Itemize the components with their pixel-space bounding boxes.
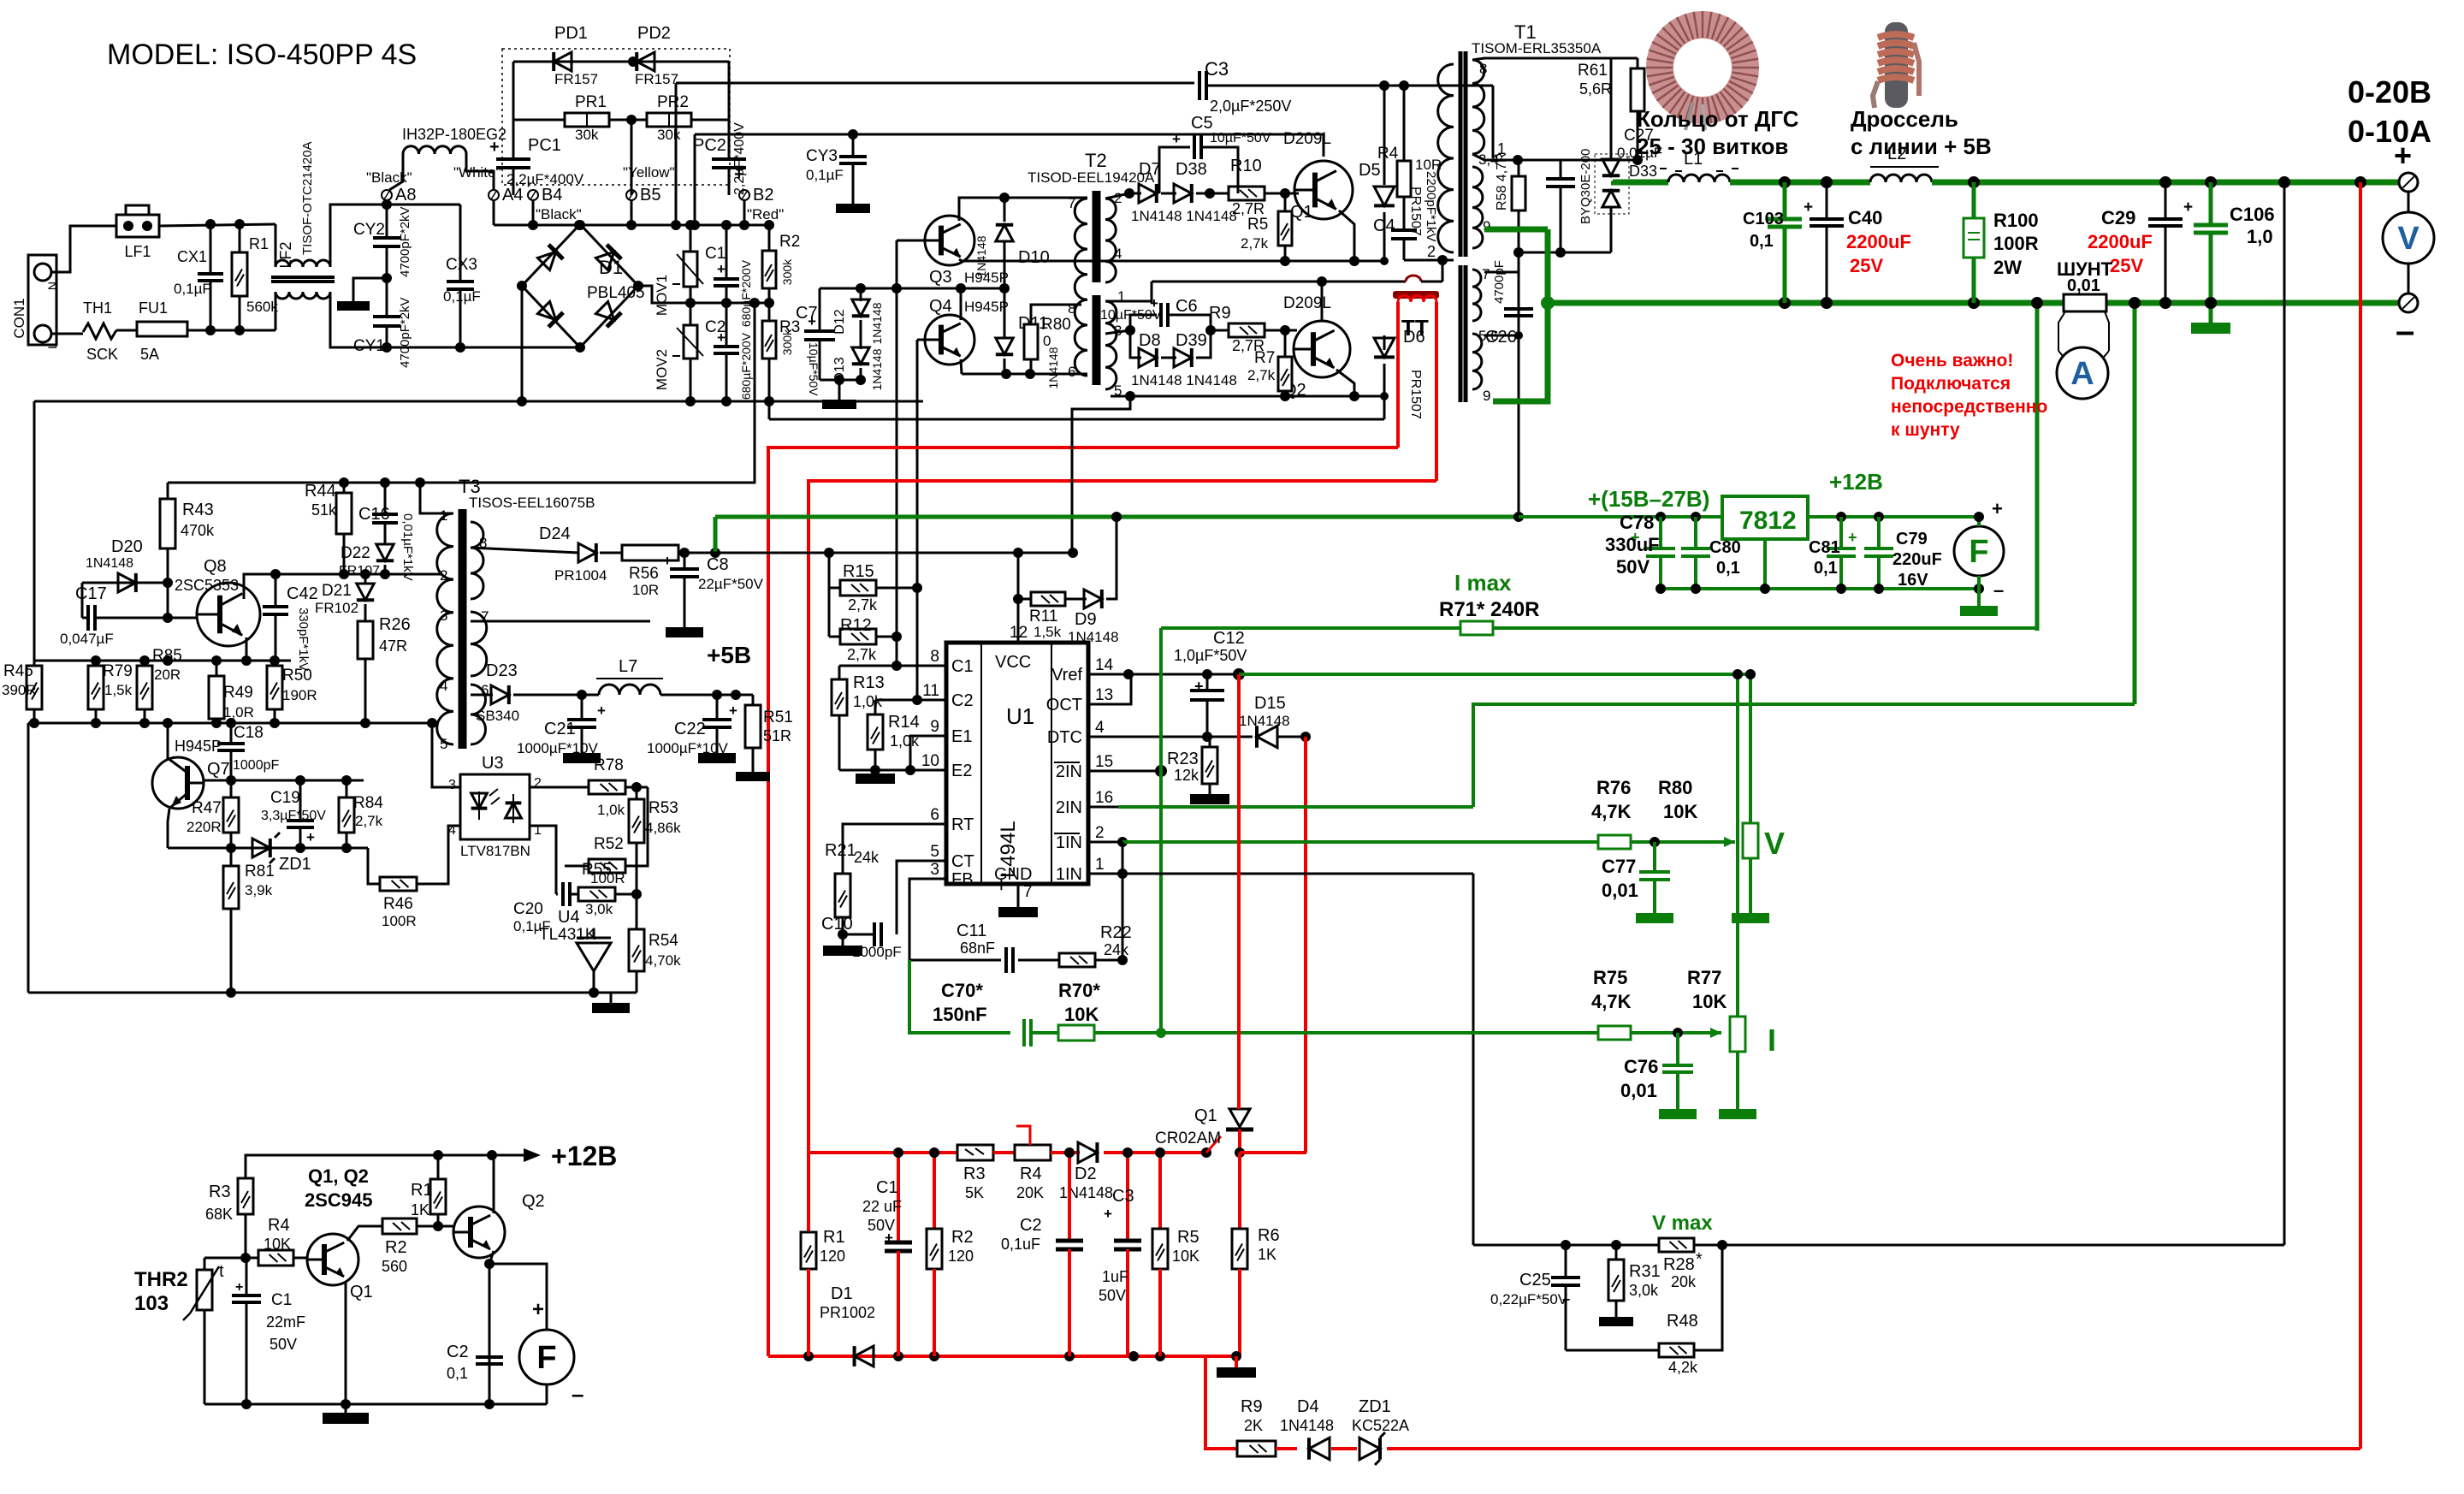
svg-text:1uF: 1uF xyxy=(1102,1268,1128,1285)
svg-text:+5B: +5B xyxy=(707,642,751,668)
svg-text:R4: R4 xyxy=(1020,1165,1042,1183)
svg-text:Очень важно!: Очень важно! xyxy=(1891,351,2013,371)
svg-text:LF2: LF2 xyxy=(277,241,294,268)
svg-text:Кольцо от ДГС: Кольцо от ДГС xyxy=(1637,106,1799,132)
svg-text:25 - 30 витков: 25 - 30 витков xyxy=(1637,133,1788,159)
svg-text:4700pF: 4700pF xyxy=(1492,260,1507,304)
svg-text:+: + xyxy=(1848,529,1857,546)
svg-text:D209L: D209L xyxy=(1283,130,1331,148)
svg-text:300k: 300k xyxy=(780,329,794,355)
svg-text:C5: C5 xyxy=(1191,114,1213,133)
svg-text:R9: R9 xyxy=(1241,1397,1263,1416)
svg-text:4700pF*2kV: 4700pF*2kV xyxy=(398,297,412,368)
svg-text:D209L: D209L xyxy=(1283,294,1331,312)
svg-text:3,9k: 3,9k xyxy=(245,882,273,898)
svg-text:KC522A: KC522A xyxy=(1352,1417,1409,1434)
svg-text:D4: D4 xyxy=(1297,1397,1319,1416)
svg-text:R31: R31 xyxy=(1629,1262,1661,1281)
svg-text:51R: 51R xyxy=(763,727,791,744)
svg-text:TL431K: TL431K xyxy=(539,926,596,944)
svg-text:4,2k: 4,2k xyxy=(1668,1359,1698,1376)
svg-text:TISOF-OTC21420A: TISOF-OTC21420A xyxy=(300,141,315,255)
svg-text:Q7: Q7 xyxy=(207,760,230,779)
svg-text:R14: R14 xyxy=(888,713,920,732)
svg-text:1N4148: 1N4148 xyxy=(1068,629,1119,645)
svg-text:10: 10 xyxy=(921,752,939,770)
svg-text:U3: U3 xyxy=(482,754,504,773)
svg-text:R28: R28 xyxy=(1663,1255,1695,1274)
svg-text:D23: D23 xyxy=(486,661,518,680)
svg-text:D38: D38 xyxy=(1176,160,1207,179)
svg-text:+: + xyxy=(1804,199,1813,216)
svg-text:+: + xyxy=(306,829,315,845)
svg-text:+: + xyxy=(1992,498,2003,519)
svg-text:I max: I max xyxy=(1454,570,1512,596)
svg-text:R56: R56 xyxy=(629,565,659,583)
svg-text:+: + xyxy=(597,703,606,719)
svg-text:FB: FB xyxy=(951,870,974,889)
svg-text:+: + xyxy=(489,138,500,157)
svg-text:PC2: PC2 xyxy=(693,136,726,155)
svg-text:D39: D39 xyxy=(1176,331,1207,350)
svg-text:25V: 25V xyxy=(1850,255,1883,276)
svg-text:330pF*1kV: 330pF*1kV xyxy=(296,608,311,671)
svg-text:R78: R78 xyxy=(594,756,624,774)
svg-text:5K: 5K xyxy=(965,1184,984,1201)
svg-text:4: 4 xyxy=(1114,246,1122,262)
svg-text:C11: C11 xyxy=(957,922,986,940)
svg-text:PD1: PD1 xyxy=(554,24,588,43)
svg-text:R26: R26 xyxy=(379,615,411,634)
svg-text:TISOM-ERL35350A: TISOM-ERL35350A xyxy=(1472,40,1602,56)
svg-text:LF1: LF1 xyxy=(124,243,151,260)
svg-text:1N4148: 1N4148 xyxy=(1280,1417,1334,1434)
svg-text:470k: 470k xyxy=(181,522,215,539)
svg-text:H945P: H945P xyxy=(175,738,222,755)
svg-text:8: 8 xyxy=(1479,61,1487,77)
svg-text:C12: C12 xyxy=(1213,629,1245,648)
svg-text:PR1004: PR1004 xyxy=(554,567,607,584)
svg-text:14: 14 xyxy=(1095,656,1114,674)
svg-text:+12B: +12B xyxy=(1829,469,1883,495)
svg-text:R2: R2 xyxy=(385,1238,407,1257)
svg-text:390R: 390R xyxy=(2,682,37,698)
svg-text:C4: C4 xyxy=(1373,216,1395,235)
svg-text:0,01: 0,01 xyxy=(2067,276,2100,295)
svg-text:C20: C20 xyxy=(513,900,543,918)
svg-text:10K: 10K xyxy=(264,1236,291,1253)
svg-text:3,0k: 3,0k xyxy=(1629,1282,1659,1299)
svg-text:4: 4 xyxy=(1095,719,1105,737)
svg-text:+: + xyxy=(1172,131,1181,147)
svg-text:R3: R3 xyxy=(209,1183,231,1201)
svg-text:+: + xyxy=(885,1230,893,1246)
svg-text:2200uF: 2200uF xyxy=(2088,231,2153,252)
svg-text:+12B: +12B xyxy=(551,1141,617,1171)
svg-text:5: 5 xyxy=(930,843,939,861)
svg-text:8: 8 xyxy=(930,648,939,666)
svg-text:C1: C1 xyxy=(951,657,974,676)
svg-text:A8: A8 xyxy=(395,186,416,205)
svg-text:–: – xyxy=(2396,312,2414,350)
svg-text:R45: R45 xyxy=(3,662,33,680)
svg-text:16: 16 xyxy=(1095,789,1113,807)
svg-text:120: 120 xyxy=(948,1248,974,1265)
svg-text:C2: C2 xyxy=(705,318,726,336)
svg-text:C25: C25 xyxy=(1519,1271,1551,1289)
svg-text:C2: C2 xyxy=(447,1343,469,1361)
svg-text:7: 7 xyxy=(1023,883,1033,901)
svg-text:PR1: PR1 xyxy=(575,93,607,111)
svg-text:68K: 68K xyxy=(205,1206,233,1223)
svg-text:2: 2 xyxy=(1095,824,1105,842)
svg-text:2,7k: 2,7k xyxy=(1241,235,1269,252)
svg-text:2: 2 xyxy=(1114,190,1122,206)
svg-text:D1: D1 xyxy=(599,257,623,278)
svg-text:C8: C8 xyxy=(707,555,729,574)
svg-text:0,1µF: 0,1µF xyxy=(443,288,481,305)
svg-text:22 uF: 22 uF xyxy=(862,1198,902,1215)
svg-text:10K: 10K xyxy=(1692,991,1727,1012)
svg-text:Q3: Q3 xyxy=(929,268,952,287)
svg-text:100R: 100R xyxy=(1993,233,2039,254)
svg-text:U1: U1 xyxy=(1006,703,1034,729)
svg-text:13: 13 xyxy=(1095,686,1113,704)
svg-text:FU1: FU1 xyxy=(139,299,168,317)
svg-text:D7: D7 xyxy=(1139,160,1161,179)
svg-text:FR157: FR157 xyxy=(554,71,598,87)
svg-text:R46: R46 xyxy=(383,895,413,913)
svg-text:C1: C1 xyxy=(876,1178,898,1197)
svg-text:50V: 50V xyxy=(1616,556,1650,578)
svg-text:+(15B–27B): +(15B–27B) xyxy=(1588,486,1709,512)
svg-text:C19: C19 xyxy=(270,789,300,807)
svg-text:–: – xyxy=(1993,579,2004,601)
svg-text:103: 103 xyxy=(134,1292,169,1315)
svg-text:C26: C26 xyxy=(1485,328,1517,347)
svg-text:30k: 30k xyxy=(575,127,599,143)
svg-text:1,0R: 1,0R xyxy=(223,704,254,720)
svg-text:0: 0 xyxy=(1043,333,1051,349)
svg-text:10R: 10R xyxy=(632,582,659,598)
svg-text:R44: R44 xyxy=(305,482,336,501)
svg-text:330uF: 330uF xyxy=(1605,534,1660,555)
svg-text:R52: R52 xyxy=(594,835,624,853)
svg-text:10K: 10K xyxy=(1064,1004,1099,1025)
svg-text:R79: R79 xyxy=(103,662,133,680)
svg-text:0,047µF: 0,047µF xyxy=(60,631,114,647)
svg-text:B4: B4 xyxy=(542,186,562,205)
svg-text:6: 6 xyxy=(1068,364,1075,380)
svg-text:R2: R2 xyxy=(779,233,800,251)
svg-text:+: + xyxy=(532,1298,544,1321)
svg-text:C76: C76 xyxy=(1624,1056,1658,1077)
svg-text:R47: R47 xyxy=(192,799,222,817)
svg-text:T2: T2 xyxy=(1085,150,1107,171)
svg-text:8: 8 xyxy=(1068,300,1075,317)
svg-text:2,7k: 2,7k xyxy=(1247,367,1276,383)
svg-text:FR102: FR102 xyxy=(315,600,358,616)
svg-text:R1: R1 xyxy=(411,1181,433,1200)
svg-text:R53: R53 xyxy=(649,799,678,817)
svg-text:R1: R1 xyxy=(249,235,269,252)
svg-text:FR157: FR157 xyxy=(635,71,678,87)
svg-text:C79: C79 xyxy=(1896,530,1928,548)
svg-text:1000µF*10V: 1000µF*10V xyxy=(517,740,599,756)
svg-text:LTV817BN: LTV817BN xyxy=(460,843,530,859)
svg-text:+: + xyxy=(717,261,726,277)
svg-text:560k: 560k xyxy=(246,299,278,315)
svg-text:Q2: Q2 xyxy=(522,1192,545,1211)
svg-text:20R: 20R xyxy=(154,667,181,683)
svg-text:+: + xyxy=(1104,1206,1112,1222)
svg-text:3: 3 xyxy=(930,861,939,879)
svg-text:D21: D21 xyxy=(322,582,352,600)
svg-text:10K: 10K xyxy=(1172,1248,1199,1265)
svg-text:24k: 24k xyxy=(1104,941,1129,958)
svg-text:1000pF: 1000pF xyxy=(852,944,902,960)
svg-text:20k: 20k xyxy=(1671,1273,1697,1290)
svg-text:3: 3 xyxy=(448,778,456,792)
svg-text:CY3: CY3 xyxy=(806,147,838,165)
svg-text:11: 11 xyxy=(922,682,939,700)
svg-text:1,5k: 1,5k xyxy=(1034,624,1062,640)
svg-text:+: + xyxy=(1194,678,1204,695)
svg-text:10K: 10K xyxy=(1663,801,1697,822)
svg-text:D22: D22 xyxy=(341,544,370,562)
svg-text:2SC5353: 2SC5353 xyxy=(175,577,239,594)
svg-text:C2: C2 xyxy=(951,691,974,710)
svg-text:R77: R77 xyxy=(1687,967,1721,988)
svg-text:0-10A: 0-10A xyxy=(2348,114,2431,149)
svg-text:V: V xyxy=(2397,221,2420,257)
svg-text:C80: C80 xyxy=(1709,538,1741,557)
svg-text:C77: C77 xyxy=(1602,856,1636,877)
svg-text:MOV2: MOV2 xyxy=(654,349,670,390)
svg-text:R4: R4 xyxy=(268,1216,290,1235)
svg-text:+: + xyxy=(2183,199,2193,216)
svg-text:2,7k: 2,7k xyxy=(848,596,878,614)
svg-text:MODEL: ISO-450PP 4S: MODEL: ISO-450PP 4S xyxy=(107,39,417,71)
svg-text:Q1: Q1 xyxy=(350,1283,373,1301)
svg-text:DTC: DTC xyxy=(1047,728,1082,747)
svg-text:E1: E1 xyxy=(951,727,972,746)
svg-text:100R: 100R xyxy=(382,913,417,929)
svg-text:Q1, Q2: Q1, Q2 xyxy=(308,1165,369,1187)
svg-text:Q1: Q1 xyxy=(1290,203,1313,222)
svg-text:0,1µF: 0,1µF xyxy=(174,281,211,297)
svg-text:22mF: 22mF xyxy=(266,1313,305,1331)
svg-text:1N4148: 1N4148 xyxy=(974,235,988,277)
svg-text:с линии + 5В: с линии + 5В xyxy=(1851,133,1992,159)
svg-text:1,5k: 1,5k xyxy=(104,682,133,698)
svg-text:50V: 50V xyxy=(1099,1287,1126,1304)
svg-text:TT: TT xyxy=(1401,315,1429,341)
svg-text:R5: R5 xyxy=(1247,216,1268,234)
svg-text:R10: R10 xyxy=(1230,157,1262,175)
svg-text:1K: 1K xyxy=(1258,1246,1276,1263)
svg-text:R81: R81 xyxy=(245,863,275,880)
svg-text:H945P: H945P xyxy=(964,299,1009,315)
svg-text:R3: R3 xyxy=(963,1165,986,1183)
svg-text:1N4148 1N4148: 1N4148 1N4148 xyxy=(1131,372,1237,388)
svg-text:4,7K: 4,7K xyxy=(1591,801,1632,822)
svg-text:24k: 24k xyxy=(854,849,880,866)
svg-text:220R: 220R xyxy=(187,819,222,835)
svg-text:51k: 51k xyxy=(311,501,337,519)
svg-text:D20: D20 xyxy=(111,537,143,556)
svg-text:–: – xyxy=(572,1381,583,1407)
svg-text:GND: GND xyxy=(994,865,1032,884)
svg-text:0,01µF*1kV: 0,01µF*1kV xyxy=(400,513,415,581)
svg-text:R80: R80 xyxy=(1041,316,1071,334)
svg-text:PR1507: PR1507 xyxy=(1408,370,1423,419)
svg-text:5A: 5A xyxy=(140,346,159,363)
svg-text:47R: 47R xyxy=(379,637,407,655)
svg-text:"Black": "Black" xyxy=(536,206,582,222)
svg-text:1: 1 xyxy=(1095,856,1105,874)
svg-text:2200pF*1kV: 2200pF*1kV xyxy=(1424,171,1438,242)
svg-text:C106: C106 xyxy=(2230,204,2275,225)
svg-text:R15: R15 xyxy=(843,562,874,581)
svg-text:1,0µF*50V: 1,0µF*50V xyxy=(1174,647,1247,664)
svg-text:2,7R: 2,7R xyxy=(1232,200,1265,217)
svg-text:R51: R51 xyxy=(763,708,793,726)
svg-text:R48: R48 xyxy=(1667,1312,1698,1331)
svg-text:CY1: CY1 xyxy=(353,337,385,355)
svg-text:4700pF*2kV: 4700pF*2kV xyxy=(398,206,412,277)
svg-text:D10: D10 xyxy=(1018,248,1050,267)
svg-text:C3: C3 xyxy=(1112,1187,1134,1206)
svg-text:R84: R84 xyxy=(353,794,383,812)
svg-text:5: 5 xyxy=(440,736,447,752)
svg-text:CR02AM: CR02AM xyxy=(1155,1129,1221,1147)
svg-text:2IN: 2IN xyxy=(1056,762,1082,781)
svg-text:C29: C29 xyxy=(2101,207,2135,228)
svg-text:1N4148: 1N4148 xyxy=(1239,713,1290,729)
svg-text:0,01: 0,01 xyxy=(1620,1080,1657,1101)
svg-text:MOV1: MOV1 xyxy=(654,275,670,316)
svg-text:4,86k: 4,86k xyxy=(645,820,681,836)
svg-text:t: t xyxy=(219,1262,224,1281)
svg-text:R49: R49 xyxy=(223,684,253,702)
svg-text:1K: 1K xyxy=(411,1201,429,1218)
svg-text:SB340: SB340 xyxy=(476,708,519,724)
svg-text:7: 7 xyxy=(1068,195,1075,211)
svg-text:2,2µF*400V: 2,2µF*400V xyxy=(506,171,584,187)
svg-text:6: 6 xyxy=(930,806,939,824)
svg-text:непосредственно: непосредственно xyxy=(1891,397,2047,417)
svg-text:2: 2 xyxy=(1427,243,1436,260)
svg-text:TISOS-EEL16075B: TISOS-EEL16075B xyxy=(469,495,595,511)
svg-text:I: I xyxy=(1768,1023,1776,1058)
svg-text:0,1: 0,1 xyxy=(447,1365,468,1382)
svg-text:1000µF*10V: 1000µF*10V xyxy=(647,740,729,756)
svg-text:1000pF: 1000pF xyxy=(233,758,279,773)
svg-text:0,1: 0,1 xyxy=(1750,232,1774,251)
svg-text:B2: B2 xyxy=(753,186,773,205)
svg-text:R58 4,7R: R58 4,7R xyxy=(1495,152,1509,210)
svg-text:C18: C18 xyxy=(234,724,264,742)
svg-text:0,1uF: 0,1uF xyxy=(1001,1236,1040,1253)
svg-text:CON1: CON1 xyxy=(11,298,27,338)
svg-text:22µF*50V: 22µF*50V xyxy=(698,576,764,592)
svg-text:+: + xyxy=(1562,1293,1570,1307)
svg-text:+: + xyxy=(663,553,672,569)
svg-text:R70*: R70* xyxy=(1058,980,1100,1001)
svg-text:3,3µF*50V: 3,3µF*50V xyxy=(261,809,326,823)
svg-text:12k: 12k xyxy=(1174,767,1199,784)
svg-text:V max: V max xyxy=(1652,1212,1713,1235)
svg-text:Дроссель: Дроссель xyxy=(1851,106,1958,132)
svg-text:C103: C103 xyxy=(1743,210,1784,228)
svg-text:SCK: SCK xyxy=(86,346,118,363)
svg-text:BYQ30E-200: BYQ30E-200 xyxy=(1578,149,1593,224)
svg-text:2: 2 xyxy=(440,567,447,584)
svg-text:VCC: VCC xyxy=(995,653,1031,672)
svg-text:R21: R21 xyxy=(825,841,856,860)
svg-text:2200uF: 2200uF xyxy=(1846,231,1911,252)
svg-text:R50: R50 xyxy=(282,667,312,685)
svg-text:N: N xyxy=(45,282,59,290)
svg-text:C16: C16 xyxy=(358,505,390,524)
svg-text:R85: R85 xyxy=(152,647,182,665)
svg-text:A: A xyxy=(2070,356,2094,392)
svg-text:D1: D1 xyxy=(831,1284,853,1303)
svg-text:C3: C3 xyxy=(1205,58,1229,80)
svg-text:3: 3 xyxy=(440,608,447,624)
svg-text:CY2: CY2 xyxy=(353,221,385,239)
svg-text:PC1: PC1 xyxy=(528,136,561,155)
svg-text:R7: R7 xyxy=(1254,349,1275,367)
svg-text:+: + xyxy=(235,1280,243,1295)
svg-text:R61: R61 xyxy=(1578,62,1608,80)
svg-text:0,1: 0,1 xyxy=(1716,559,1740,578)
svg-text:R1: R1 xyxy=(823,1228,845,1247)
svg-text:4,7K: 4,7K xyxy=(1591,991,1632,1012)
svg-text:R12: R12 xyxy=(840,616,872,635)
svg-text:R71* 240R: R71* 240R xyxy=(1439,598,1539,621)
svg-text:1,0: 1,0 xyxy=(2247,226,2273,247)
svg-text:7812: 7812 xyxy=(1739,507,1797,535)
svg-text:C70*: C70* xyxy=(941,980,983,1001)
svg-text:4,70k: 4,70k xyxy=(645,952,681,969)
svg-text:Q8: Q8 xyxy=(204,557,227,576)
svg-text:30k: 30k xyxy=(657,127,681,143)
svg-text:D2: D2 xyxy=(1075,1165,1097,1183)
svg-text:D15: D15 xyxy=(1254,694,1286,713)
svg-text:C6: C6 xyxy=(1176,297,1198,316)
svg-text:2IN: 2IN xyxy=(1056,798,1082,817)
svg-text:0,1µF: 0,1µF xyxy=(806,167,844,183)
svg-text:R5: R5 xyxy=(1177,1228,1199,1247)
svg-text:V: V xyxy=(1764,826,1785,861)
svg-text:0,22µF*50V: 0,22µF*50V xyxy=(1490,1291,1568,1307)
svg-text:Q1: Q1 xyxy=(1194,1106,1217,1125)
svg-text:50V: 50V xyxy=(269,1336,297,1353)
svg-text:16V: 16V xyxy=(1898,571,1928,590)
svg-text:L: L xyxy=(45,342,59,349)
svg-text:D9: D9 xyxy=(1075,610,1097,629)
svg-text:1N4148: 1N4148 xyxy=(86,556,133,571)
svg-text:R80: R80 xyxy=(1658,777,1692,798)
svg-text:C78: C78 xyxy=(1620,512,1654,533)
svg-text:120: 120 xyxy=(820,1248,845,1265)
svg-text:1IN: 1IN xyxy=(1056,865,1082,884)
svg-text:15: 15 xyxy=(1095,753,1113,771)
svg-text:1,0k: 1,0k xyxy=(597,802,625,818)
svg-text:ZD1: ZD1 xyxy=(279,855,311,874)
